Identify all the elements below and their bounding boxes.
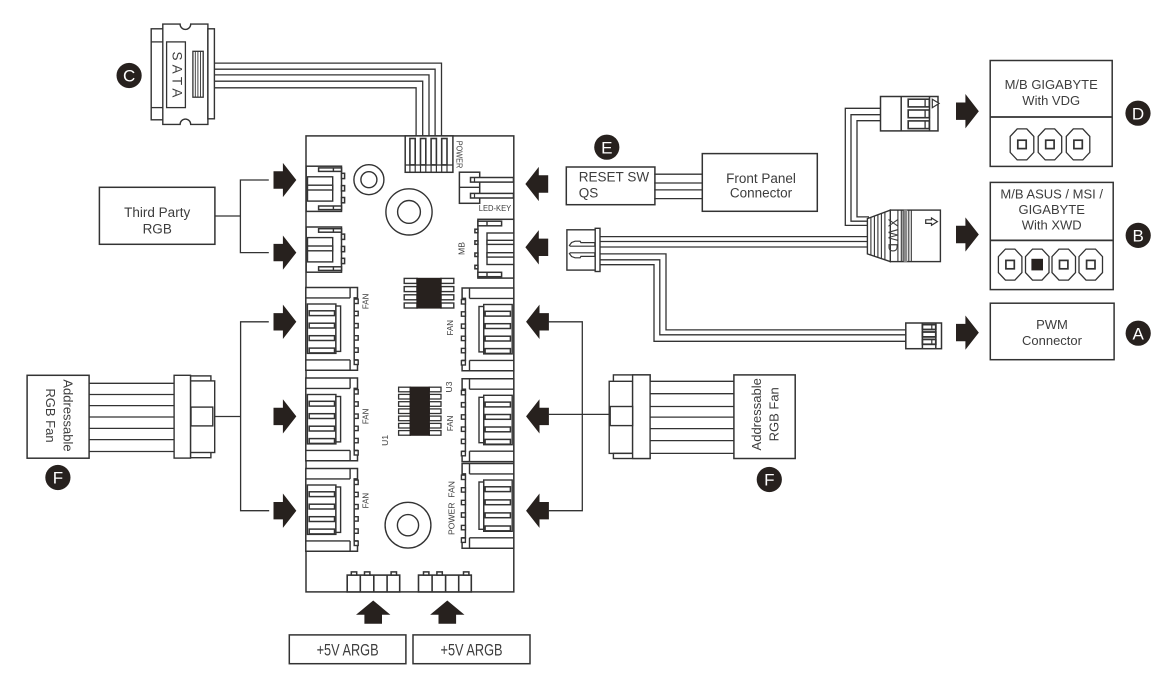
svg-text:M/B ASUS / MSI /: M/B ASUS / MSI / <box>1000 186 1103 201</box>
svg-text:+5V ARGB: +5V ARGB <box>441 642 503 660</box>
bracket wire (right addressable fan, 3 arrows) <box>548 322 582 511</box>
svg-text:FAN: FAN <box>361 294 371 310</box>
black arrow into board right #4 <box>527 401 549 432</box>
FAN header left #1 <box>306 288 358 371</box>
wire band B: plug down to PWM connector (3 lines) <box>600 254 906 341</box>
svg-text:Addressable: Addressable <box>749 378 764 450</box>
black arrow into board right #5 <box>527 495 549 526</box>
IC chip U2 (8-pin, top middle) <box>404 278 454 308</box>
label box +5V ARGB #1 <box>289 635 406 664</box>
svg-text:LED-KEY: LED-KEY <box>479 203 512 213</box>
up arrow to +5V ARGB group1 <box>357 601 389 623</box>
label box +5V ARGB #2 <box>413 635 530 664</box>
svg-text:RGB Fan: RGB Fan <box>767 387 782 441</box>
wire band A: plug to XWD (3 lines) <box>600 237 868 247</box>
mount hole (bottom) <box>385 502 431 548</box>
svg-text:FAN: FAN <box>445 320 455 336</box>
bottom solder header group 2 <box>419 572 472 592</box>
black arrow into board left #5 <box>274 495 296 526</box>
POWER input header on board <box>405 136 464 172</box>
PWM 3-pin connector (A cable end) <box>906 323 942 349</box>
mount hole (small, top) <box>354 165 384 195</box>
wire bracket to right F connector <box>548 413 610 415</box>
black arrow into board left #4 <box>274 401 296 432</box>
svg-text:With XWD: With XWD <box>1022 218 1082 233</box>
label circle B <box>1126 223 1151 248</box>
up arrow to +5V ARGB group2 <box>432 601 464 623</box>
svg-text:Front Panel: Front Panel <box>726 171 796 186</box>
3-pin RGB header (top-left #1) <box>306 166 344 211</box>
MB header (4-pin, board right) <box>457 219 514 278</box>
black arrow into board left #2 <box>274 237 296 268</box>
FAN header right #2 <box>461 379 513 462</box>
black arrow to A box <box>957 317 979 348</box>
label circle D <box>1125 101 1150 126</box>
svg-text:B: B <box>1133 227 1144 246</box>
black arrow into board left #1 <box>274 164 296 195</box>
svg-text:QS: QS <box>579 186 599 201</box>
label circle E <box>594 135 619 160</box>
wires box to connector (left F) <box>89 383 174 451</box>
label box Front Panel Connector <box>702 154 817 212</box>
svg-text:E: E <box>601 138 612 157</box>
wires connector to box (right F) <box>650 381 734 453</box>
3-pin RGB header (top-left #2) <box>306 227 344 272</box>
XWD 4-pin connector (B cable end) <box>867 210 940 262</box>
3-pin plug of E/front-panel harness <box>567 228 600 271</box>
svg-text:C: C <box>123 67 135 86</box>
bracket wire (left addressable fan, 3 arrows) <box>241 322 270 511</box>
wire Third Party RGB to bracket <box>215 215 241 217</box>
wire bundle: SATA cable to POWER header (5 lines) <box>214 63 442 136</box>
svg-text:M/B GIGABYTE: M/B GIGABYTE <box>1005 77 1099 92</box>
black arrow into board left #3 <box>274 306 296 337</box>
label box Addressable RGB Fan (left) <box>27 375 89 458</box>
svg-text:POWER FAN: POWER FAN <box>446 481 456 535</box>
bottom solder header group 1 <box>347 572 400 592</box>
SATA power connector (label C) <box>151 24 214 124</box>
svg-text:FAN: FAN <box>361 409 371 425</box>
label box Third Party RGB <box>99 187 214 244</box>
POWER FAN header right #3 <box>461 464 513 549</box>
3-pin fan plug (left F) <box>174 375 215 458</box>
label circle C <box>117 63 142 88</box>
svg-text:Third Party: Third Party <box>124 205 190 220</box>
svg-text:Addressable: Addressable <box>61 379 76 451</box>
svg-text:RGB Fan: RGB Fan <box>43 388 58 442</box>
label box Addressable RGB Fan (right) <box>734 375 795 459</box>
svg-text:FAN: FAN <box>361 493 371 509</box>
black arrow into board right #2 (MB) <box>526 232 548 263</box>
mount hole (large, top) <box>386 189 432 235</box>
wire F-connector to bracket <box>215 416 241 418</box>
black arrow to D box <box>957 96 979 127</box>
svg-text:POWER: POWER <box>455 141 465 169</box>
svg-text:RESET SW: RESET SW <box>579 170 650 185</box>
wires D connector to XWD (3 lines) <box>845 108 880 225</box>
svg-text:U3: U3 <box>444 381 454 392</box>
svg-text:A: A <box>1133 324 1145 343</box>
svg-text:Connector: Connector <box>1022 333 1083 348</box>
LED-KEY header (board right top) <box>459 172 513 213</box>
3-pin fan plug (right F) <box>609 375 650 459</box>
svg-text:D: D <box>1132 104 1144 123</box>
PCB controller board outline <box>306 136 514 592</box>
svg-text:Connector: Connector <box>730 185 793 200</box>
svg-text:SATA: SATA <box>170 51 185 101</box>
svg-text:With VDG: With VDG <box>1022 93 1080 108</box>
label box PWM Connector <box>990 303 1114 360</box>
black arrow into board right #3 <box>527 306 549 337</box>
svg-text:MB: MB <box>457 242 467 255</box>
IC chip U1 (14-pin, middle) with labels U1/U3 <box>399 387 441 435</box>
wires RESET SW to Front Panel (4 lines) <box>654 174 703 198</box>
label box M/B GIGABYTE With VDG + 3-pin socket <box>990 61 1112 167</box>
bracket wire (top-left pair) <box>240 180 268 253</box>
svg-text:+5V ARGB: +5V ARGB <box>317 642 379 660</box>
label circle F (left) <box>45 465 70 490</box>
black arrow to B box <box>957 219 979 250</box>
label circle A <box>1126 321 1151 346</box>
svg-text:RGB: RGB <box>143 222 172 237</box>
svg-text:FAN: FAN <box>445 416 455 432</box>
FAN header left #3 <box>306 469 358 552</box>
label circle F (right) <box>757 467 782 492</box>
svg-text:PWM: PWM <box>1036 317 1068 332</box>
label box M/B ASUS/MSI/GIGABYTE With XWD + 4-pin socket <box>990 182 1113 289</box>
svg-text:U1: U1 <box>380 435 390 446</box>
FAN header right #1 <box>461 288 513 371</box>
svg-text:GIGABYTE: GIGABYTE <box>1018 202 1085 217</box>
svg-text:F: F <box>53 469 63 488</box>
FAN header left #2 <box>306 378 358 461</box>
VDG 3-pin connector (D cable end) <box>881 97 940 131</box>
svg-text:F: F <box>764 471 774 490</box>
label box RESET SW QS <box>566 167 655 205</box>
black arrow into board right #1 (LED-KEY) <box>526 168 548 199</box>
